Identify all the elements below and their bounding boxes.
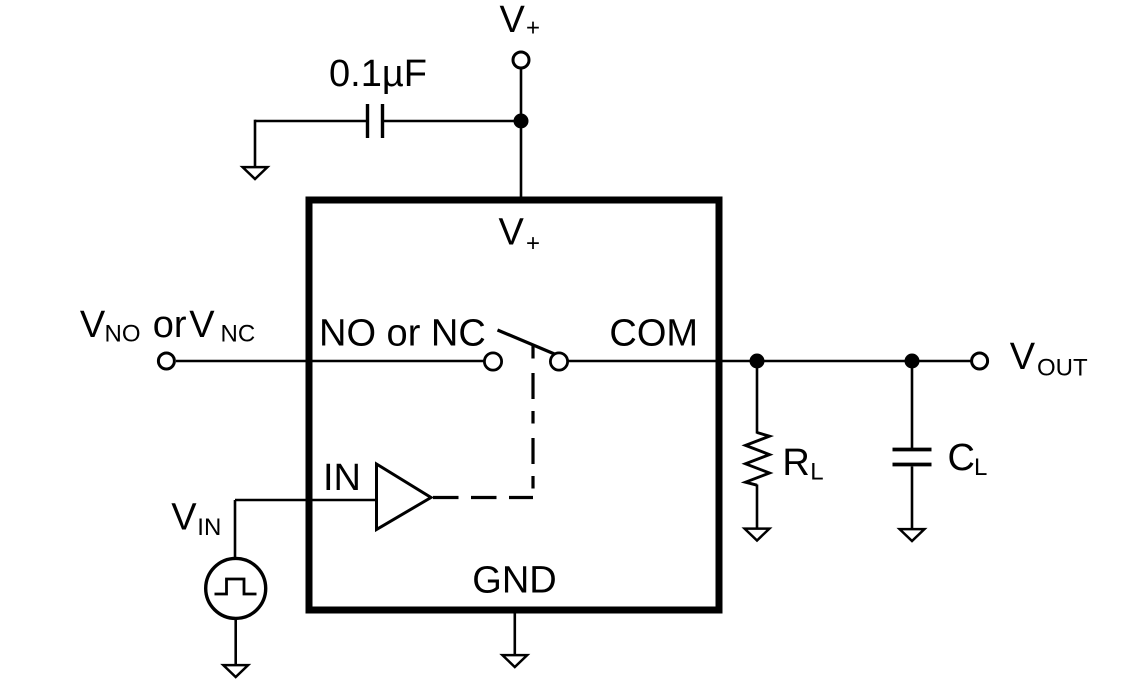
svg-text:IN: IN xyxy=(323,457,361,499)
svg-text:IN: IN xyxy=(197,514,221,541)
svg-text:or: or xyxy=(153,304,187,346)
svg-text:GND: GND xyxy=(472,560,556,602)
svg-text:+: + xyxy=(526,15,540,42)
svg-text:V: V xyxy=(171,496,197,538)
svg-text:OUT: OUT xyxy=(1037,355,1088,382)
svg-text:R: R xyxy=(782,442,809,484)
svg-text:V: V xyxy=(1010,336,1036,378)
svg-text:L: L xyxy=(974,454,987,481)
svg-text:0.1µF: 0.1µF xyxy=(329,53,427,95)
svg-text:V: V xyxy=(499,212,525,254)
svg-text:NC: NC xyxy=(221,321,256,348)
svg-text:V: V xyxy=(189,304,215,346)
svg-text:V: V xyxy=(80,304,106,346)
svg-text:V: V xyxy=(500,0,526,41)
svg-text:COM: COM xyxy=(609,313,698,355)
svg-text:NO or NC: NO or NC xyxy=(319,313,486,355)
svg-text:+: + xyxy=(526,230,540,257)
svg-text:L: L xyxy=(810,459,823,486)
svg-text:C: C xyxy=(948,437,975,479)
svg-text:NO: NO xyxy=(105,321,141,348)
